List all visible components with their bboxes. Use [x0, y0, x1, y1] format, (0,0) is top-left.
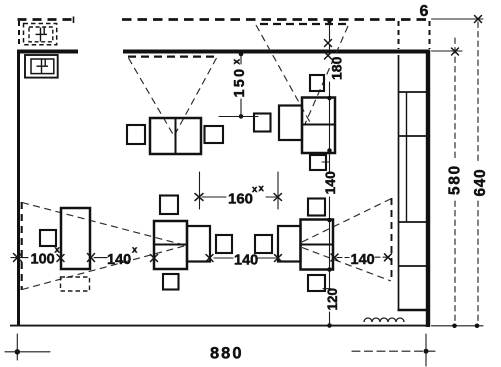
chair right of center-left group	[216, 235, 232, 253]
dot at bottom-right table bottom edge	[327, 267, 332, 272]
shelf unit along right wall	[398, 55, 428, 310]
marker X at 160 left end	[195, 194, 203, 201]
dot at bottom wall	[327, 323, 332, 328]
dimension 640 top tick	[432, 18, 484, 20]
dimension 150 : dot at table level	[239, 114, 244, 119]
chain line segments	[329, 23, 331, 324]
marker X 580 top	[452, 48, 459, 55]
sight cone right upper edge	[302, 199, 392, 243]
marker X at desk left edge	[57, 255, 64, 262]
dashed corner right	[429, 21, 431, 49]
bottom tick for 580/640	[432, 325, 484, 327]
dashed room-extension line (top, main part)	[122, 18, 430, 21]
table group top-center : double table	[150, 118, 201, 154]
dimension 150 : table-level tick	[219, 116, 258, 118]
svg-text:x: x	[55, 245, 61, 256]
bottom wall	[10, 325, 430, 327]
chair tick (top-right group lower chair)	[322, 161, 329, 163]
sight cone top-center left edge	[129, 58, 175, 136]
label 180 (rotated)	[329, 56, 345, 80]
sight cone top-right left edge	[256, 25, 311, 124]
sight cone right lower edge	[302, 248, 391, 282]
chair above bottom-right table	[308, 199, 325, 216]
label 120 (rotated)	[325, 288, 340, 311]
label 880	[210, 345, 244, 363]
left wall	[17, 50, 20, 327]
desk alternative position (dashed)	[61, 277, 90, 291]
right wall	[426, 50, 430, 327]
label 150 (rotated)	[232, 59, 249, 98]
dimension 880 : left dot	[15, 349, 20, 354]
chair below center-left table	[163, 274, 179, 290]
table group bottom-right : double table	[301, 220, 334, 270]
svg-text:880: 880	[210, 345, 244, 363]
svg-text:x: x	[252, 184, 258, 195]
svg-text:x: x	[232, 59, 243, 65]
dashed room-extension line (top, left part)	[18, 17, 74, 24]
label 140 (desk to table)	[107, 245, 138, 269]
chair tick (bottom-right group lower chair)	[323, 288, 331, 290]
dot at bottom-right table top edge	[327, 218, 332, 223]
projection screen left wall (dashed)	[21, 202, 23, 290]
marker X 640 top	[475, 16, 482, 23]
horizontal dimension chain y=257 : segments	[11, 256, 389, 259]
marker X at right screen	[385, 254, 392, 261]
duct symbol upper (dashed)	[24, 24, 57, 45]
svg-text:160: 160	[228, 191, 253, 208]
svg-text:x: x	[259, 183, 265, 194]
marker X at center-left table left edge	[151, 255, 158, 262]
label 140 (table to screen)	[351, 252, 375, 268]
dimension 150 : dot at wall	[239, 52, 244, 57]
dimension 160 extension line right	[277, 172, 279, 209]
dimension 160 extension line left	[199, 172, 201, 209]
marker X at center-left side table right edge	[206, 255, 213, 262]
marker X at desk right edge	[88, 254, 95, 262]
svg-text:140: 140	[351, 252, 375, 268]
side table center-left group	[187, 226, 210, 262]
chair below bottom-right table	[308, 275, 325, 291]
dimension 880 : left extension line	[16, 334, 18, 360]
dimension 160 line segments	[202, 196, 276, 198]
label 160	[228, 183, 265, 208]
svg-text:140: 140	[107, 252, 131, 268]
label 140 (rotated, between tables)	[322, 171, 338, 195]
chair above center-left table	[160, 196, 178, 215]
sight cone top-center right edge	[174, 58, 217, 136]
label 6 (wall thickness)	[420, 3, 429, 20]
marker X at bottom-right table right edge	[331, 254, 338, 261]
dimension 880 : right dot	[424, 349, 429, 354]
marker X at 160 right end	[274, 194, 282, 201]
projection screen top-right (dashed)	[260, 23, 347, 25]
svg-text:580: 580	[447, 164, 464, 195]
svg-text:6: 6	[420, 3, 429, 20]
marker x above wall	[325, 40, 332, 47]
projection screen top-center (dashed)	[128, 55, 217, 57]
chair left of top-center table	[127, 125, 145, 144]
top wall left segment	[17, 50, 78, 54]
label 580 (rotated)	[447, 164, 464, 195]
label 140 (aisle)	[234, 253, 258, 269]
teacher chair	[40, 230, 56, 246]
label 100	[31, 245, 61, 268]
dot at top-right table bottom edge	[327, 148, 332, 153]
label 640 (rotated)	[472, 169, 489, 197]
sight cone top-right right edge	[305, 26, 348, 124]
svg-text:640: 640	[472, 169, 489, 197]
svg-text:150: 150	[232, 67, 248, 98]
dimension 640 dashed line	[477, 22, 479, 322]
radiator squiggle	[364, 318, 404, 322]
chair left of bottom-right group	[255, 235, 272, 253]
svg-text:100: 100	[31, 252, 55, 268]
dot 640 bottom	[475, 324, 480, 329]
duct symbol lower (solid)	[25, 55, 58, 78]
vertical dimension chain x=329.5 : top dot on dashed line	[327, 19, 332, 24]
dashed shelf-edge extension top right	[398, 21, 400, 49]
svg-text:180: 180	[329, 56, 345, 80]
dot 580 bottom	[452, 324, 457, 329]
dashed corner left	[18, 21, 20, 48]
marker x below wall	[325, 52, 332, 59]
chair above top-right table	[310, 75, 324, 91]
dimension 880 : left line segment	[5, 351, 50, 353]
table group top-right : double table	[302, 98, 335, 154]
marker X at bottom-right side table left edge	[275, 255, 282, 262]
table group center-left : double table	[154, 221, 187, 269]
svg-text:120: 120	[325, 288, 340, 311]
chair left of top-right group	[254, 114, 271, 132]
svg-text:140: 140	[234, 253, 258, 269]
top wall main segment	[123, 50, 430, 54]
dimension 880 : right dashed segment	[352, 350, 437, 352]
projection screen right wall (dashed)	[391, 198, 393, 280]
dot at top-right table top edge	[327, 96, 332, 101]
svg-text:140: 140	[322, 171, 338, 195]
chair below top-right table	[310, 155, 326, 170]
chair right of top-center table	[205, 126, 224, 143]
sight cone left lower edge	[22, 246, 186, 290]
dimension 880 : right extension line	[425, 334, 427, 366]
marker X at left wall (dim 100)	[14, 254, 22, 262]
dimension 150 : line	[240, 56, 242, 114]
dimension 580 top tick	[432, 50, 463, 52]
svg-text:x: x	[132, 245, 138, 256]
teacher desk	[61, 208, 90, 269]
dimension 580 dashed line	[454, 38, 456, 322]
side table bottom-right group	[278, 226, 301, 262]
sight cone left upper edge	[22, 203, 186, 246]
side table top-right group	[279, 106, 302, 141]
